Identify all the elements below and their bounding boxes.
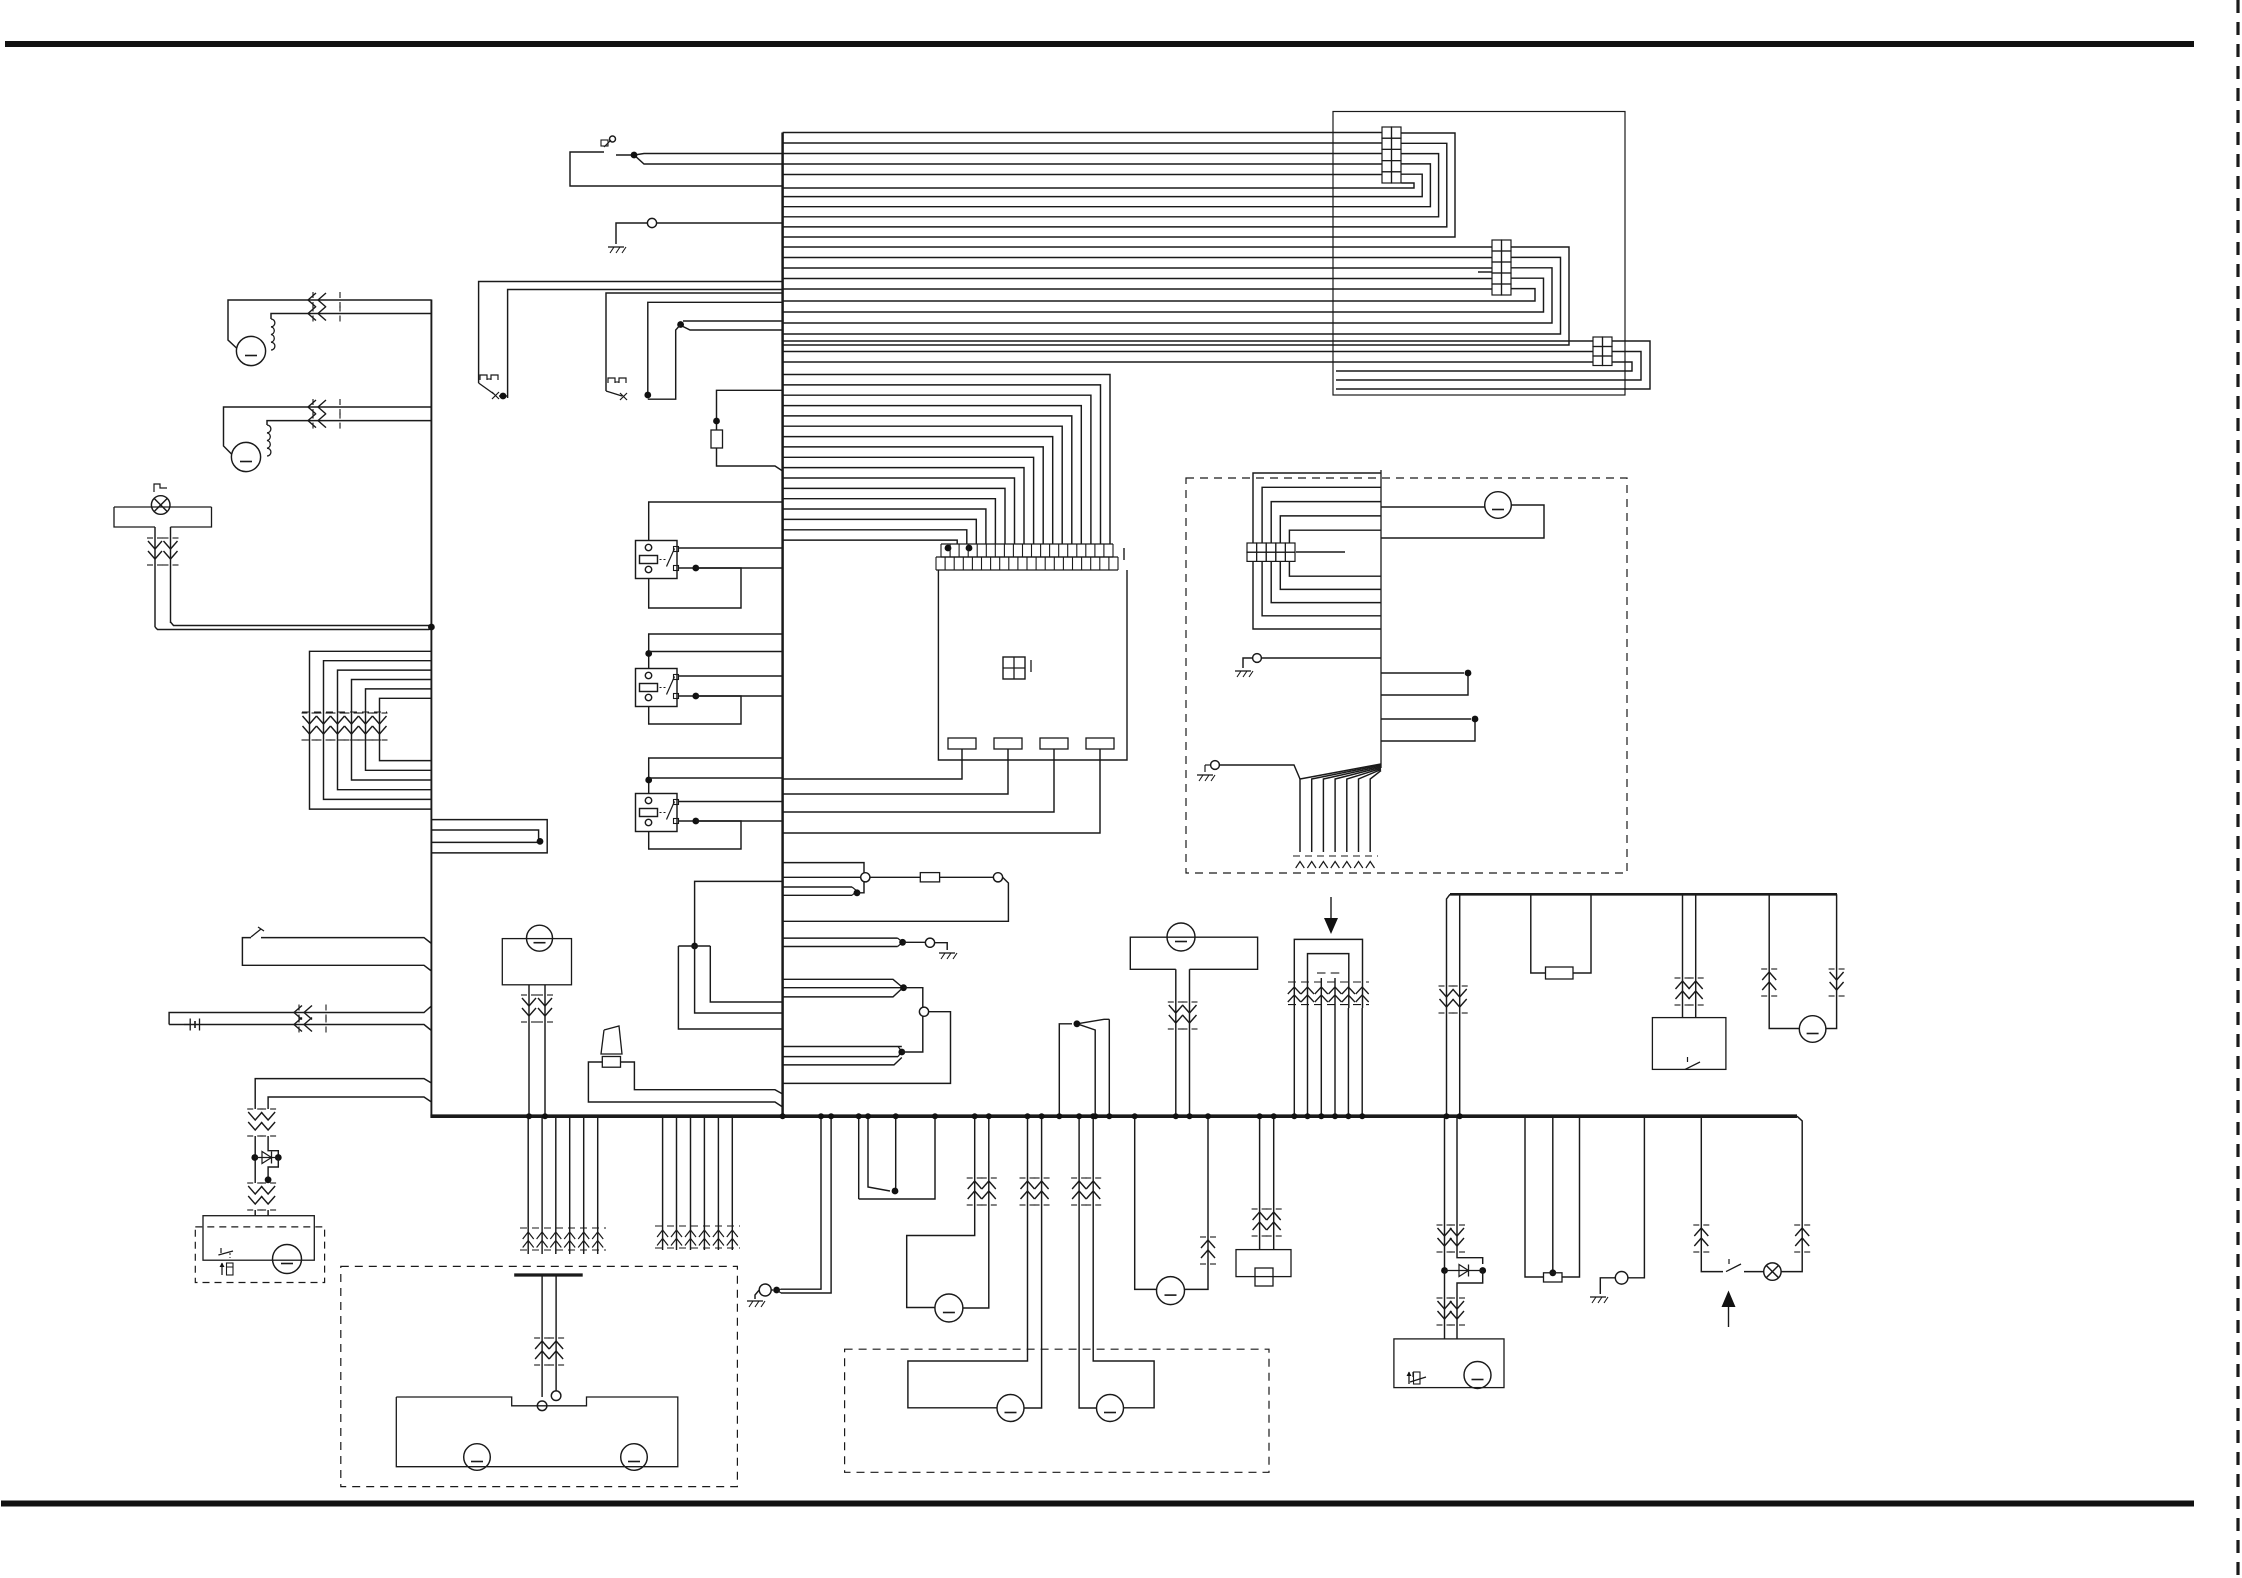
- switch S2 lever: [1726, 1264, 1741, 1272]
- washer box outline: [396, 1397, 678, 1467]
- junction dot C2: [898, 1049, 905, 1056]
- terminal T9: [551, 1391, 561, 1401]
- wire injector leg1: [1259, 1116, 1261, 1249]
- wire relay K1 bottom loop: [649, 568, 741, 608]
- right dashed page border: [2236, 0, 2239, 1578]
- motor M6 (speedo): [1485, 492, 1512, 519]
- wire CN2 loop 5 (right loop back to spine): [783, 289, 1535, 301]
- switch SA contact bracket: [480, 375, 487, 380]
- motor M4 (fuel pump): [527, 925, 553, 951]
- wire spine to ECU connector pin 7: [783, 437, 1053, 544]
- wire T2 to fuse F1: [870, 876, 920, 878]
- wire spine to terminal T2 left: [783, 876, 861, 878]
- wire relay K2 contact B to spine: [679, 695, 783, 697]
- wire fuse F1 to terminal T3: [940, 876, 994, 878]
- bus junction dots: [526, 1113, 532, 1119]
- wire spine to ECU connector pin 8: [783, 447, 1044, 544]
- wire spine to ECU connector pin 3: [783, 395, 1091, 544]
- relay K1: [636, 541, 678, 579]
- wire relay K1 contact A to spine: [679, 547, 783, 549]
- wire lamp L2 right leg: [1781, 1116, 1802, 1271]
- connector arrow lamp left: [1693, 1224, 1699, 1226]
- wire spine to connector CN3 pin 2: [783, 351, 1593, 353]
- junction dot stub A: [1465, 670, 1472, 677]
- wire R1 leg1 down: [1444, 1271, 1446, 1339]
- capacitor bar: [514, 1273, 583, 1276]
- wire T4 link: [903, 941, 926, 943]
- wire relay K3 contact A to spine: [679, 801, 783, 803]
- wire CN1 loop 5 (right loop back to spine): [783, 174, 1423, 196]
- wire spine to switch SB loop pair b: [683, 327, 783, 331]
- ECU bottom tab 3: [1040, 738, 1068, 749]
- wire bus drop pair R1 leg2: [1457, 1116, 1483, 1264]
- wire CN3 loop 2: [1336, 352, 1641, 381]
- wire spine to ECU connector pin 5: [783, 416, 1072, 544]
- connector arrows R1 lower: [1437, 1297, 1443, 1299]
- wire lamp to rail junction a: [155, 627, 431, 630]
- wire spine to connector CN1 pin 2: [783, 142, 1382, 144]
- switch SB2 lever: [1685, 1062, 1700, 1069]
- wire CN3 loop 3: [1336, 362, 1632, 371]
- switch box SB2: [1652, 1018, 1726, 1070]
- wire sensor leg 1: [1175, 969, 1177, 1116]
- wire CN1 loop 2 (right loop back to spine): [783, 143, 1447, 227]
- ign coil inner loop: [1308, 954, 1349, 1008]
- T-sensor box: [1130, 937, 1257, 969]
- wire washer pair leg2: [555, 1277, 557, 1392]
- ECU connector strip row 1: [941, 543, 1113, 545]
- wire fuse F2 drop right: [1573, 894, 1591, 973]
- connector CN1 (2x5 grid): [1382, 127, 1392, 138]
- wire CN2 loop 1 (right loop back to spine): [783, 247, 1569, 345]
- motor M7: [1799, 1016, 1826, 1043]
- motor M5 (sensor): [1167, 923, 1195, 951]
- wire switch-box pair leg 1: [1682, 894, 1684, 1017]
- wire fan drop 3: [1108, 1019, 1110, 1116]
- fuel pump box: [502, 939, 571, 985]
- wire harness spine (vertical): [781, 133, 784, 1117]
- connector arrows sub-bus pair: [1439, 985, 1445, 987]
- junction dot stub B: [1472, 716, 1479, 723]
- wire ground drop: [1628, 1116, 1644, 1278]
- wire spine to connector CN2 pin 5: [783, 288, 1492, 290]
- wire bus drop L4: [569, 1116, 571, 1254]
- wire motor M2 coil to rail: [267, 421, 431, 425]
- junction dot diode D2 left: [1441, 1267, 1448, 1274]
- wire lever top to rail: [261, 938, 431, 944]
- wire ign coil drop 6: [1361, 1008, 1363, 1116]
- motor M2 coil: [267, 425, 271, 456]
- ign connector dashed rows: [1288, 981, 1369, 983]
- motor M9 (washer L): [464, 1444, 491, 1471]
- junction dot switch SA: [500, 393, 507, 400]
- connector arrows on lamp stem: [147, 537, 153, 539]
- wire lamp circuit left: [1701, 1116, 1723, 1271]
- wire CN2 loop 3 (right loop back to spine): [783, 268, 1552, 323]
- wire sub-bus left pair leg 2: [1459, 894, 1461, 1116]
- wire headlamp B right: [1093, 1116, 1154, 1408]
- wire spine to ECU connector pin 14: [783, 509, 986, 544]
- wire resistor R1 to spine: [717, 448, 783, 471]
- wire spine to ECU connector pin 17: [783, 540, 958, 544]
- junction dot rail-lamp: [428, 624, 435, 631]
- wire spine to ECU connector pin 9: [783, 457, 1034, 544]
- wire T-bar leg 3 to spine: [678, 946, 782, 1029]
- wire bus drop M6: [731, 1116, 733, 1250]
- wire relay K2 bottom loop: [649, 696, 741, 724]
- connector arrows horn pair: [967, 1177, 973, 1179]
- wire motor M14 left: [1135, 1116, 1157, 1289]
- wire bus drop M3: [690, 1116, 692, 1250]
- wire headlamp A right: [1024, 1116, 1042, 1408]
- security icon: [221, 1263, 223, 1275]
- mini spine (dashed box): [1380, 470, 1382, 768]
- motor M11 (horn): [935, 1294, 963, 1322]
- fuse F1: [920, 873, 939, 882]
- wire C2 link to T5: [902, 1016, 923, 1052]
- junction dot relay K3 contact B: [692, 818, 699, 825]
- wire security leg2 mid: [268, 1136, 278, 1155]
- wire dashed-box loop 4: [1280, 516, 1381, 543]
- lamp L1 housing bar: [114, 506, 212, 508]
- wire dashed-box fan 2: [1312, 765, 1381, 852]
- wire stub pair A: [1381, 672, 1464, 674]
- wire CN2 loop 2 (right loop back to spine): [783, 257, 1561, 334]
- connector arrows pair A: [1020, 1177, 1026, 1179]
- wire T-bar leg 1 to spine: [710, 946, 782, 1002]
- bottom border rule: [1, 1501, 2194, 1507]
- ECU internal square-cross symbol: [1003, 657, 1025, 679]
- wire lamp stem left: [154, 527, 156, 627]
- wire ECU tab 1 to spine: [783, 749, 962, 779]
- wire dashed-box loop 2: [1262, 487, 1381, 543]
- lamp L1 pedestal mark: [154, 484, 167, 492]
- junction dot relay K3: [645, 777, 652, 784]
- junction dot resistor R2: [1549, 1269, 1556, 1276]
- wiper box: [1394, 1339, 1504, 1388]
- connector arrow row group1: [520, 1227, 606, 1229]
- wire headlamp B left: [1079, 1116, 1097, 1408]
- wire ign coil drop 3: [1320, 1008, 1322, 1116]
- terminal T8: [1615, 1272, 1628, 1285]
- ECU connector strip tick: [1123, 548, 1125, 560]
- left harness rail (vertical): [430, 300, 432, 1117]
- wire headlamp A left: [908, 1116, 1028, 1408]
- wire spine bracket C1 c: [783, 989, 902, 997]
- wire rail right loop outer: [431, 820, 547, 853]
- wire spine to ECU connector pin 15: [783, 519, 977, 544]
- motor M12: [997, 1395, 1024, 1422]
- motor M10 (washer R): [621, 1444, 648, 1471]
- wire terminal T3 loop back to spine: [783, 877, 1009, 921]
- top border rule: [5, 41, 2194, 47]
- junction dot N: [892, 1188, 899, 1195]
- wire bus drop M4: [703, 1116, 705, 1250]
- wire dot join: [777, 1289, 781, 1293]
- junction dot ECU pin A: [945, 545, 952, 552]
- wire T11 to ground: [755, 1290, 759, 1299]
- ground G5: [1590, 1296, 1606, 1298]
- wire spine to switch SB loop pair a: [683, 320, 783, 322]
- main ground bus (horizontal): [430, 1114, 1797, 1118]
- resistor R1: [711, 430, 723, 448]
- junction dot relay K2 contact B: [692, 693, 699, 700]
- wire motor M2 to rail (upper): [224, 407, 432, 454]
- wire bus drop N3: [895, 1116, 897, 1191]
- wire switch S2 to lamp L2: [1744, 1271, 1764, 1273]
- ign coil outer loop: [1294, 939, 1362, 1008]
- wire pair spine to terminal T4: [783, 937, 898, 939]
- wire rail to security leg 1: [255, 1079, 431, 1109]
- wire relay K1 coil top to spine: [649, 502, 783, 541]
- ECU connector strip row 2: [936, 556, 1118, 558]
- switch SB x-mark: [620, 393, 627, 400]
- wire bus drop L2: [541, 1116, 543, 1254]
- wire bus drop N4: [859, 1116, 935, 1199]
- connector arrow lamp right: [1794, 1224, 1800, 1226]
- wire relay K3 branch to spine: [649, 777, 783, 779]
- wire motor M6 loop back: [1381, 505, 1544, 538]
- wire T8 to ground: [1600, 1278, 1615, 1294]
- wire spine to ECU connector pin 4: [783, 406, 1082, 544]
- wire dashed-box fan 4: [1335, 767, 1381, 852]
- terminal T11: [759, 1284, 771, 1296]
- wire switch SA to leg2: [499, 395, 508, 397]
- junction dot diode D1 left: [251, 1154, 258, 1161]
- switch SB lever: [606, 391, 622, 396]
- wire bus ground stub leg2: [781, 1116, 831, 1293]
- wire dashed-box fan 1: [1300, 764, 1381, 852]
- wire resistor drop 1: [1525, 1116, 1544, 1277]
- wire rail to antenna top: [169, 1006, 431, 1025]
- security dashed box: [195, 1227, 324, 1283]
- wire relay K2 branch to spine: [649, 651, 783, 653]
- wire CN1 loop 4 (right loop back to spine): [783, 164, 1431, 207]
- wire CN3 loop 1: [1336, 341, 1650, 389]
- diode D2: [1445, 1270, 1483, 1272]
- wire security to box: [254, 1210, 256, 1216]
- wire spine to resistor R1: [717, 390, 783, 430]
- connector arrows on M2 wires: [312, 399, 314, 405]
- wire relay K3 bottom loop: [649, 821, 741, 849]
- connector area outline box: [1333, 112, 1625, 396]
- wire CN1 loop 6: [783, 183, 1414, 188]
- injector inner square: [1255, 1268, 1273, 1286]
- connector arrows washer pair: [534, 1337, 540, 1339]
- terminal circle T1: [647, 218, 656, 227]
- ECU bottom tab 1: [948, 738, 976, 749]
- wire horn drop right: [963, 1116, 989, 1308]
- ECU module box: [938, 570, 1127, 760]
- wire dashed-box loop 5: [1289, 530, 1381, 543]
- wire spine to T-bar: [695, 881, 783, 946]
- wire relay K1 contact B to spine: [679, 567, 783, 569]
- wire sub-bus left pair leg 1: [1447, 894, 1451, 1116]
- wire motor M7 loop right: [1826, 894, 1837, 1028]
- wire T2 stem link: [857, 882, 864, 893]
- switch SB contact bracket: [608, 378, 615, 383]
- wire rail loop 3 (left bundle): [338, 670, 432, 790]
- connector arrow row group2: [655, 1225, 740, 1227]
- wire ECU tab 4 to spine: [783, 749, 1100, 833]
- connector arrows security upper: [247, 1108, 253, 1110]
- junction dot ground stub: [773, 1287, 780, 1294]
- connector arrows security lower: [247, 1182, 253, 1184]
- wire bus drop L5: [583, 1116, 585, 1254]
- wiper icon: [1408, 1372, 1410, 1384]
- wire rail loop 6 (left bundle): [380, 698, 432, 760]
- wire dashed-box loop 1: [1253, 473, 1381, 543]
- junction dot below diode: [265, 1176, 272, 1183]
- wire switch S1 to spine: [616, 154, 634, 156]
- wire mini-spine to motor M6: [1381, 506, 1485, 508]
- wire ECU tab 3 to spine: [783, 749, 1054, 812]
- ECU bottom tab 2: [994, 738, 1022, 749]
- wire fan drop 2: [1077, 1024, 1095, 1116]
- wire diode D2 out: [1457, 1271, 1483, 1339]
- connector CN2 (2x5 grid): [1492, 240, 1502, 251]
- wire rail loop 2 (left bundle): [324, 661, 432, 800]
- wire spine to connector CN2 pin 2: [783, 257, 1492, 259]
- wire bus drop M1: [662, 1116, 664, 1250]
- wire spine to ECU connector pin 16: [783, 530, 967, 544]
- ground G1: [608, 246, 624, 248]
- wire spine bracket C2 c: [783, 1058, 902, 1065]
- ground G4: [1197, 774, 1213, 776]
- wire CN1 loop 1 (right loop back to spine): [783, 133, 1455, 237]
- wire resistor drop 3: [1562, 1116, 1580, 1277]
- wire bus drop pair R1 leg1: [1444, 1116, 1446, 1270]
- wire spine bracket C2 b: [783, 1056, 898, 1058]
- relay K2: [636, 669, 678, 707]
- wire bus drop L3: [555, 1116, 557, 1254]
- wire bus ground stub leg1: [781, 1116, 821, 1289]
- wire rail loop 5 (left bundle): [366, 689, 432, 770]
- wire switch S1 loop to spine: [570, 152, 783, 186]
- wire T6 to ground: [1243, 658, 1253, 668]
- connector grid (dashed box): [1247, 543, 1257, 552]
- junction dot C1: [900, 984, 907, 991]
- wire dashed-box loop 3: [1271, 502, 1381, 543]
- wire spine to connector CN3 pin 3: [783, 361, 1593, 363]
- horn speaker symbol: [601, 1026, 622, 1054]
- wire security leg1 mid: [254, 1136, 256, 1183]
- wire ign coil drop 1: [1293, 1008, 1295, 1116]
- relay K3: [636, 794, 678, 832]
- junction dot SB loop: [677, 321, 684, 328]
- wire spine to ECU connector pin 12: [783, 488, 1005, 544]
- wire dashed-box fan 6: [1359, 770, 1382, 853]
- connector CN3 (2x3 grid): [1593, 337, 1603, 347]
- sub-bus (right section): [1450, 893, 1837, 896]
- lamp L1: [151, 496, 170, 515]
- wire lamp to rail junction b: [171, 622, 432, 627]
- wire T11 link: [771, 1289, 773, 1291]
- wire motor M14 right: [1185, 1116, 1208, 1289]
- terminal T7: [1211, 761, 1220, 770]
- wire spine to connector CN1 pin 3: [783, 153, 1382, 155]
- wire bus drop L6: [597, 1116, 599, 1254]
- switch SA x-mark: [492, 392, 499, 399]
- wire spine to switch SA leg 1: [479, 282, 783, 384]
- motor M8 (wiper): [1464, 1362, 1491, 1389]
- wire spine to ECU connector pin 6: [783, 426, 1063, 544]
- motor M1: [236, 336, 265, 365]
- junction dot resistor R1 top: [713, 418, 720, 425]
- ign coil center lines: [1320, 978, 1322, 1008]
- security box switch: [218, 1251, 233, 1255]
- wire spine bracket C1 a: [783, 979, 902, 986]
- terminal circle T3: [993, 873, 1002, 882]
- wire spine to connector CN2 pin 4: [783, 278, 1492, 280]
- ground G2: [939, 952, 955, 954]
- wire rail loop 4 (left bundle): [352, 680, 432, 781]
- connector arrow row (rail bundle): [302, 712, 308, 714]
- junction dot diode D1 right: [275, 1154, 282, 1161]
- wire T6 to mini spine: [1261, 657, 1381, 659]
- wire spine to ECU connector pin 2: [783, 385, 1101, 544]
- wire dashed-box fan 3: [1323, 766, 1381, 852]
- wire horn left to spine: [588, 1062, 782, 1107]
- wire spine to ECU connector pin 13: [783, 499, 996, 544]
- ground G3: [1235, 670, 1251, 672]
- motor M1 coil: [271, 319, 275, 350]
- hood switch lever: [251, 929, 261, 937]
- wire spine to switch SA leg 2: [508, 290, 783, 399]
- wire bus drop M5: [717, 1116, 719, 1250]
- wire motor M7 loop left: [1769, 894, 1799, 1028]
- wire lever to rail: [242, 938, 431, 971]
- wire bus drop N1: [858, 1116, 860, 1199]
- wire T4 to ground: [935, 943, 948, 950]
- junction dot rail right loop: [537, 838, 544, 845]
- wire motor M1 coil to rail: [271, 314, 431, 320]
- wire spine to switch SB leg 2: [648, 302, 783, 395]
- wire pair merge to T2: [783, 886, 852, 888]
- wire rail loop 1 (left bundle): [310, 651, 432, 809]
- wire spine to connector CN1 pin 1: [783, 132, 1382, 134]
- washer dashed box: [341, 1266, 738, 1486]
- wire spine to ECU connector pin 11: [783, 478, 1015, 544]
- ECU bottom tab 4: [1086, 738, 1114, 749]
- wire dashed-box fan 5: [1347, 768, 1381, 852]
- battery symbol B1: [189, 1019, 191, 1031]
- wire grid stub: [1296, 551, 1345, 553]
- connector arrow M14 right: [1200, 1236, 1206, 1238]
- wire relay K2 coil top to spine: [649, 634, 783, 669]
- connector arrows M7 left: [1761, 968, 1767, 970]
- terminal circle T4: [925, 938, 934, 947]
- junction dot switch S1: [631, 152, 638, 159]
- fuse F2: [1546, 967, 1574, 979]
- injector block: [1236, 1250, 1291, 1277]
- terminal circle T5: [919, 1007, 928, 1016]
- wire switch-box pair leg 2: [1695, 894, 1697, 1017]
- right dashed box: [1186, 478, 1627, 873]
- junction dot T4: [899, 939, 906, 946]
- wire spine bracket C1 b: [783, 987, 904, 989]
- wire ign coil drop 4: [1334, 1008, 1336, 1116]
- wire CN1 loop 3 (right loop back to spine): [783, 154, 1439, 217]
- down arrow marker: [1330, 897, 1332, 922]
- connector arrows injector: [1252, 1208, 1258, 1210]
- wiper box switch: [1410, 1377, 1426, 1382]
- motor M14: [1157, 1277, 1185, 1305]
- up arrow marker: [1728, 1303, 1730, 1327]
- wire resistor drop 2: [1552, 1116, 1554, 1273]
- motor M13: [1097, 1395, 1124, 1422]
- wire spine bracket C2 a: [783, 1046, 902, 1048]
